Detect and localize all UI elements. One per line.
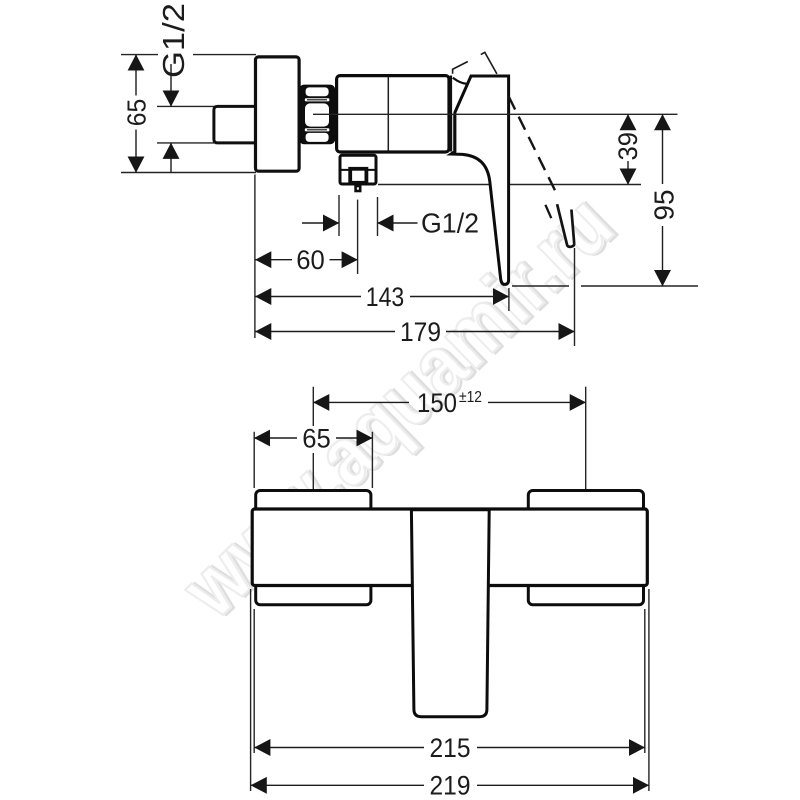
outlet connector [340,155,376,184]
ext line 215 right [644,609,646,753]
ext line left vertical (wall plate left edge) [254,175,256,339]
ext line plate bottom [121,172,256,174]
ext line handle tip level y286 [512,285,698,287]
svg-text:G1/2: G1/2 [156,3,191,78]
ghost lever back edge dash [545,205,551,218]
svg-text:65: 65 [302,423,331,453]
body internal vertical line [387,77,389,152]
svg-text:39: 39 [613,132,643,161]
ext line escutcheon right [371,432,373,488]
dimension 215 [254,747,644,749]
ext line 219 left [250,589,252,791]
ext line connector right [377,197,379,236]
ghost lever open position (dashed) [509,97,557,195]
svg-text:219: 219 [430,771,471,800]
ext line square bottom [157,142,214,144]
mixer body front [252,509,647,586]
ext line handle tip vertical [508,288,510,311]
mixer body [337,76,449,152]
dimension G1/2 (outlet row) [302,222,418,224]
ext line square top [157,105,214,107]
ext line connector left [338,195,340,236]
dimension 150 +-12 [313,401,585,403]
ext line escutcheon left [253,432,255,488]
ghost lever raised lines [453,62,468,74]
watermark www.aquamir.ru [162,175,633,637]
wall plate [256,57,300,171]
ext line top (plate top) [121,54,256,56]
right escutcheon [528,491,643,605]
ext line connector center [357,200,359,274]
svg-text:179: 179 [400,317,441,347]
dimension 179 [255,331,574,333]
outlet check valve [350,169,366,183]
cartridge dome arc [453,78,469,84]
left escutcheon [256,491,371,605]
svg-text:95: 95 [649,190,680,221]
svg-text:G1/2: G1/2 [421,208,479,239]
dimension 143 [255,296,509,298]
dimension 65 (escutcheon) [254,437,372,439]
wall union square [214,106,256,142]
svg-text:60: 60 [296,245,325,275]
outlet nub [356,186,361,191]
svg-text:65: 65 [122,99,152,127]
ext line right supply center [585,387,587,525]
dimension G1/2 (wall square, vertical) [170,64,172,173]
ext line under step y184.5 [378,184,641,186]
dimension 219 [251,784,649,786]
dimension 39 (right vertical) [627,114,629,184]
handle (solid, closed position) [451,76,509,284]
svg-text:215: 215 [430,733,471,763]
center line [313,113,678,115]
ext line 215 left [253,609,255,753]
svg-text:±12: ±12 [459,389,482,406]
ext line left supply center [312,387,314,516]
ghost lever tip [557,204,574,247]
ext line ghost tip vertical [574,248,576,346]
svg-text:143: 143 [366,282,405,312]
cartridge joint lines [450,76,452,152]
handle front [411,510,489,717]
dimension 65 (left vertical) [135,55,137,173]
ext line 219 right [648,589,650,791]
dimension 95 (right vertical) [662,114,664,286]
dimension 60 [255,259,357,261]
union nut [299,85,335,145]
svg-text:150: 150 [417,388,457,418]
